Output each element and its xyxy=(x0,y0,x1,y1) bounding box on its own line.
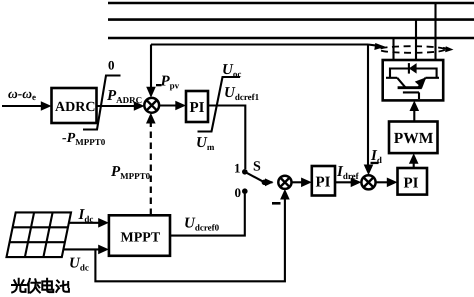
sensing zone dashed oval xyxy=(379,46,445,53)
svg-text:0: 0 xyxy=(235,185,242,200)
IGBT collector rail right xyxy=(426,77,440,79)
char fu xyxy=(27,279,40,293)
svg-text:1: 1 xyxy=(234,161,241,176)
block ADRC xyxy=(52,88,97,123)
PV panel symbol xyxy=(7,212,72,257)
wire switch contact 0 down to MPPT output xyxy=(170,194,245,236)
char guang xyxy=(12,279,26,293)
wire PI3 up to PWM xyxy=(409,153,419,168)
saturation limiter 2 xyxy=(198,77,241,132)
svg-text:ADRC: ADRC xyxy=(55,100,95,115)
summing junction 1 xyxy=(144,98,159,113)
svg-text:PI: PI xyxy=(404,176,419,192)
wire PI1 output to switch contact 1 xyxy=(208,106,245,170)
U_dc feedback wire xyxy=(95,189,289,281)
svg-text:MPPT: MPPT xyxy=(121,231,161,246)
three-phase grid bus line 1 xyxy=(108,2,474,5)
IGBT gate bar xyxy=(403,91,419,93)
wire I_dc from panel to MPPT xyxy=(69,218,109,228)
diode D1 bar xyxy=(408,63,410,74)
IGBT emitter slant with arrow xyxy=(415,77,427,88)
wire summing junction 1 to PI controller 1 xyxy=(159,101,186,111)
block PWM xyxy=(389,122,438,154)
switch S contact 1 dot xyxy=(242,169,248,175)
IGBT collector slant xyxy=(397,78,405,88)
IGBT collector rail left xyxy=(386,77,397,79)
converter box xyxy=(383,60,444,100)
IGBT gate stub xyxy=(418,92,420,99)
saturation limiter 1 xyxy=(83,76,121,130)
wire U_dc from panel to MPPT xyxy=(63,245,109,255)
block MPPT xyxy=(109,215,170,256)
svg-text:0: 0 xyxy=(108,58,115,73)
grid drop conductor from bus 3 xyxy=(392,38,394,60)
IGBT body bar xyxy=(398,86,422,89)
wire ADRC output to summing junction 1 xyxy=(97,101,145,111)
diode D1 triangle xyxy=(409,63,417,74)
wire summing junction 2 to PI controller 2 xyxy=(291,178,311,188)
grid drop conductor from bus 2 xyxy=(415,20,417,60)
three-phase grid bus line 3 xyxy=(108,37,474,40)
IGBT anti-parallel diode wire xyxy=(390,69,437,78)
svg-text:PI: PI xyxy=(316,175,331,191)
summing junction 2 xyxy=(278,176,291,189)
switch common dot xyxy=(262,180,268,186)
input wire into ADRC xyxy=(2,101,52,111)
block PI controller 3 xyxy=(398,168,428,195)
three-phase grid bus line 2 xyxy=(108,18,474,21)
switch arm xyxy=(245,172,265,183)
dashed wire P_MPPT0 from MPPT up to summing junction 1 xyxy=(146,113,156,215)
char chi xyxy=(56,281,69,292)
wire summing junction 3 to PI controller 3 xyxy=(376,178,398,188)
switch contact 0 dot xyxy=(242,188,248,194)
wire PWM up to converter xyxy=(410,101,420,122)
Ppv wire down to summing junction 1 xyxy=(146,45,156,98)
wire PI2 to summing junction 3 xyxy=(335,178,361,188)
Id measurement wire (vertical) xyxy=(364,45,374,176)
label -P_pv xyxy=(156,84,162,86)
label PV battery (Chinese) xyxy=(12,279,69,293)
grid drop conductor from bus 1 xyxy=(434,3,436,60)
minus sign at junction 2 xyxy=(272,202,281,205)
summing junction 3 xyxy=(361,175,375,189)
svg-text:ω-ωe: ω-ωe xyxy=(8,86,36,102)
block PI controller 2 xyxy=(312,166,335,196)
block PI controller 1 xyxy=(186,91,208,122)
Ppv measurement arrow into sensing zone xyxy=(368,43,386,50)
Ppv measurement wire (horizontal) xyxy=(151,43,368,45)
char dian xyxy=(42,279,53,292)
svg-text:PI: PI xyxy=(190,100,205,116)
svg-text:PWM: PWM xyxy=(394,130,434,147)
sensing zone dashed tail arrow xyxy=(443,46,454,52)
wire switch common to summing junction 2 xyxy=(264,178,273,186)
svg-text:S: S xyxy=(253,160,261,175)
